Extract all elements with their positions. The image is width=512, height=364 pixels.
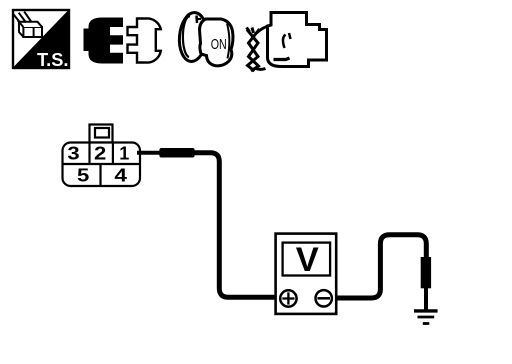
svg-text:2: 2: [94, 144, 106, 164]
splice sleeve on test lead: [159, 148, 194, 158]
svg-text:ON: ON: [211, 36, 227, 53]
wire from voltmeter minus terminal to probe: [328, 235, 426, 298]
ignition ON icon key cylinder: [177, 11, 233, 65]
voltmeter minus terminal: [316, 290, 332, 306]
svg-text:T.S.: T.S.: [37, 49, 69, 70]
ground symbol: [414, 311, 438, 324]
svg-text:3: 3: [67, 144, 79, 164]
connector latch tab window: [95, 128, 109, 138]
voltmeter plus terminal: [280, 290, 296, 306]
voltmeter body: [276, 234, 337, 314]
engine running icon fan belt: [247, 27, 268, 72]
wire stub from pin 1: [137, 151, 161, 155]
svg-text:4: 4: [114, 165, 127, 185]
disconnect icon male connector (black): [84, 18, 124, 64]
tool symbol connector sketch: [13, 12, 42, 37]
svg-text:V: V: [296, 241, 319, 279]
engine running icon body: [268, 13, 327, 67]
svg-text:1: 1: [119, 144, 129, 164]
engine running icon dipstick mark: [283, 35, 286, 49]
tool symbol black triangle: [14, 11, 69, 68]
tool symbol T.S. icon frame: [13, 10, 69, 70]
connector latch tab: [90, 125, 113, 143]
connector body: [63, 143, 141, 187]
connector row divider: [63, 163, 141, 165]
wire from splice to voltmeter plus terminal: [193, 153, 284, 298]
ignition ON icon key head: [200, 19, 234, 66]
connector divider pins 5/4: [99, 164, 101, 186]
svg-text:5: 5: [77, 165, 89, 185]
test probe: [421, 257, 431, 288]
wire probe to ground: [424, 287, 428, 311]
engine running icon dash mark: [274, 58, 290, 60]
connector divider pins 3/2: [88, 143, 90, 165]
voltmeter display: [283, 243, 331, 276]
disconnect icon female connector (white outline): [128, 18, 161, 62]
connector divider pins 2/1: [112, 143, 114, 165]
